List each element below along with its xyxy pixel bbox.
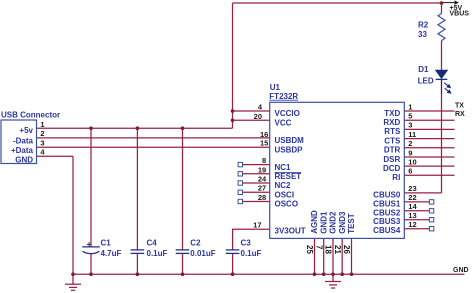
no-connect square OSCO pin 28 [238,199,242,203]
wire GND USB pin 4 vertical drop [72,156,74,274]
svg-text:TX: TX [455,102,464,109]
wire CBUS1 pin 22 [404,201,429,203]
wire GND USB pin 4 horizontal [37,155,74,157]
svg-text:18: 18 [324,245,333,254]
wire RTS pin 3 [404,128,454,130]
svg-text:5: 5 [408,112,412,121]
wire TEST pin 26 drop [351,238,353,274]
resistor R2 zigzag [438,14,445,41]
wire RXD pin 5 to RX [404,119,454,121]
svg-text:25: 25 [305,245,314,254]
no-connect square RESET pin 19 [238,172,242,176]
svg-text:CBUS1: CBUS1 [373,199,401,208]
svg-text:U1: U1 [270,83,281,92]
svg-text:RI: RI [392,173,400,182]
svg-text:GND3: GND3 [338,211,347,234]
svg-text:GND2: GND2 [329,211,338,234]
wire R2 bottom lead to LED [441,41,443,71]
wire VCCIO pin 4 [233,110,270,112]
op IC U1 FT232R box [270,102,405,238]
wire C4 bottom lead [136,253,138,274]
svg-text:0.1uF: 0.1uF [241,249,262,258]
svg-text:CBUS3: CBUS3 [373,217,401,226]
wire DCD pin 10 [404,165,454,167]
no-connect square NC2 pin 24 [238,181,242,185]
svg-text:USBDM: USBDM [275,136,305,145]
svg-text:0.1uF: 0.1uF [147,249,168,258]
wire C2 bottom lead [182,253,184,274]
svg-text:VBUS: VBUS [450,10,470,17]
wire AGND pin 25 drop [314,238,316,274]
no-connect square NC1 pin 8 [238,162,242,166]
wire C3 bottom lead [232,253,234,274]
svg-text:USB Connector: USB Connector [1,110,60,119]
svg-text:12: 12 [408,220,416,229]
svg-text:C3: C3 [241,238,252,247]
wire R2 top lead [441,3,443,14]
svg-text:21: 21 [333,245,342,254]
svg-text:OSCI: OSCI [275,191,295,200]
svg-text:D1: D1 [418,65,429,74]
svg-text:VCCIO: VCCIO [275,109,300,118]
svg-text:3: 3 [40,139,44,148]
wire CBUS0 vertical to LED cathode [441,80,443,193]
wire RI pin 6 [404,174,454,176]
wire +5V vertical riser [232,3,234,128]
svg-text:27: 27 [258,184,266,193]
svg-text:3V3OUT: 3V3OUT [275,226,306,235]
svg-text:RESET: RESET [275,172,302,181]
svg-text:22: 22 [408,193,416,202]
wire TXD pin 1 to TX [404,110,454,112]
svg-text:RX: RX [455,111,465,118]
svg-text:13: 13 [408,211,416,220]
svg-text:1: 1 [40,120,44,129]
power symbol +5V arrow [443,1,458,4]
svg-text:USBDP: USBDP [275,145,304,154]
svg-text:CBUS4: CBUS4 [373,226,401,235]
wire NC2 pin 24 [243,182,270,184]
wire NC1 pin 8 [243,164,270,166]
svg-text:20: 20 [254,112,262,121]
svg-text:28: 28 [258,193,266,202]
svg-text:CTS: CTS [384,136,401,145]
capacitor C1 polarized symbol [82,242,100,254]
svg-text:4.7uF: 4.7uF [101,249,122,258]
wire OSCO pin 28 [243,201,270,203]
svg-text:R2: R2 [418,20,429,29]
no-connect square CBUS1 [429,200,433,204]
svg-text:C4: C4 [147,238,158,247]
wire OSCI pin 27 [243,191,270,193]
svg-text:CBUS2: CBUS2 [373,208,401,217]
svg-text:9: 9 [408,148,412,157]
no-connect square CBUS3 [429,218,433,222]
svg-text:LED: LED [418,77,434,86]
wire C4 top lead [136,128,138,249]
svg-text:RXD: RXD [383,118,400,127]
wire DSR pin 9 [404,156,454,158]
svg-text:26: 26 [342,245,351,254]
wire RESET pin 19 [243,173,270,175]
wire C1 top lead [90,128,92,246]
wire DTR pin 2 [404,147,454,149]
wire VCC pin 20 [233,119,270,121]
svg-text:0.01uF: 0.01uF [190,249,215,258]
svg-text:NC1: NC1 [275,163,292,172]
svg-text:GND1: GND1 [319,211,328,234]
no-connect square CBUS4 [429,227,433,231]
svg-text:3: 3 [408,121,412,130]
svg-text:17: 17 [253,220,261,229]
svg-text:2: 2 [40,129,44,138]
svg-text:23: 23 [408,184,416,193]
wire +Data USB pin 3 to USBDP [37,146,270,148]
svg-text:RTS: RTS [384,127,401,136]
svg-text:6: 6 [408,167,412,176]
svg-text:15: 15 [260,139,268,148]
wire +5V top horizontal [233,2,444,4]
svg-text:FT232R: FT232R [269,92,298,101]
wire C1 bottom lead [90,254,92,275]
svg-text:DSR: DSR [383,155,400,164]
svg-text:GND: GND [15,155,33,164]
svg-text:2: 2 [408,139,412,148]
svg-text:24: 24 [258,175,267,184]
LED D1 symbol [436,70,451,94]
svg-text:-Data: -Data [13,136,34,145]
svg-text:8: 8 [262,156,266,165]
svg-text:NC2: NC2 [275,181,292,190]
svg-text:OSCO: OSCO [275,200,299,209]
svg-text:C1: C1 [101,238,112,247]
wire ground rail bottom [73,273,464,275]
svg-text:19: 19 [258,165,266,174]
svg-text:+5v: +5v [19,126,33,135]
wire CBUS4 pin 12 [404,228,429,230]
svg-text:11: 11 [408,130,416,139]
svg-text:33: 33 [418,30,427,39]
capacitor C4 symbol [131,250,145,254]
svg-text:TXD: TXD [384,109,400,118]
wire GND3 pin 21 drop [341,238,343,274]
ground symbol left (USB shield) [65,274,81,290]
svg-text:7: 7 [314,245,323,250]
svg-text:+Data: +Data [11,146,34,155]
svg-text:CBUS0: CBUS0 [373,190,401,199]
no-connect square OSCI pin 27 [238,190,242,194]
svg-text:AGND: AGND [310,210,319,234]
svg-text:1: 1 [408,102,412,111]
wire CBUS3 pin 13 [404,219,429,221]
ground symbol under IC [325,274,341,288]
wire CBUS2 pin 14 [404,210,429,212]
USB connector J1 box [1,120,37,164]
wire GND2 pin 18 drop [332,238,334,274]
svg-text:GND: GND [453,267,469,274]
svg-text:10: 10 [408,157,416,166]
wire GND1 pin 7 drop [323,238,325,274]
capacitor C3 symbol [226,250,240,254]
svg-text:VCC: VCC [275,119,292,128]
svg-text:TEST: TEST [347,213,356,234]
wire +5v net horizontal from USB pin 1 [37,127,233,129]
svg-text:DTR: DTR [384,146,401,155]
svg-text:C2: C2 [190,238,201,247]
wire -Data USB pin 2 to USBDM [37,137,270,139]
wire CTS pin 11 [404,138,454,140]
capacitor C2 symbol [176,250,190,254]
svg-text:14: 14 [408,202,417,211]
wire CBUS0 pin 23 horizontal [404,192,441,194]
wire 3V3OUT pin 17 to C3 [233,229,270,249]
svg-text:DCD: DCD [383,164,401,173]
no-connect square CBUS2 [429,209,433,213]
wire C2 top lead [182,128,184,249]
